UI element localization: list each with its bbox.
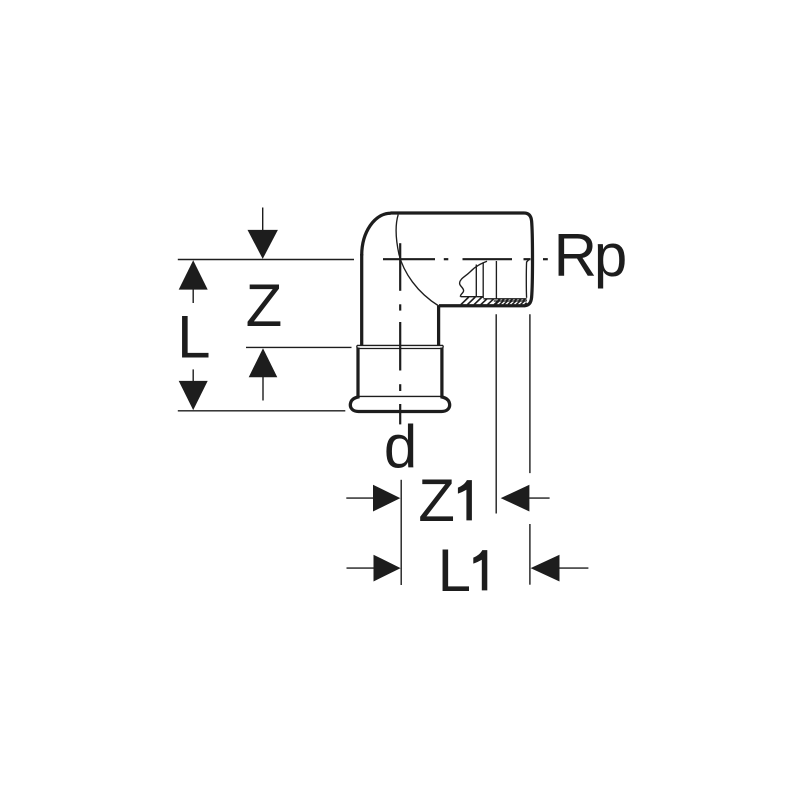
svg-text:Z: Z [246,272,283,339]
svg-text:L: L [438,537,471,604]
svg-text:Z: Z [418,467,455,534]
svg-text:d: d [384,413,417,480]
svg-text:p: p [594,222,627,289]
svg-text:L: L [177,304,210,371]
svg-text:R: R [554,222,597,289]
